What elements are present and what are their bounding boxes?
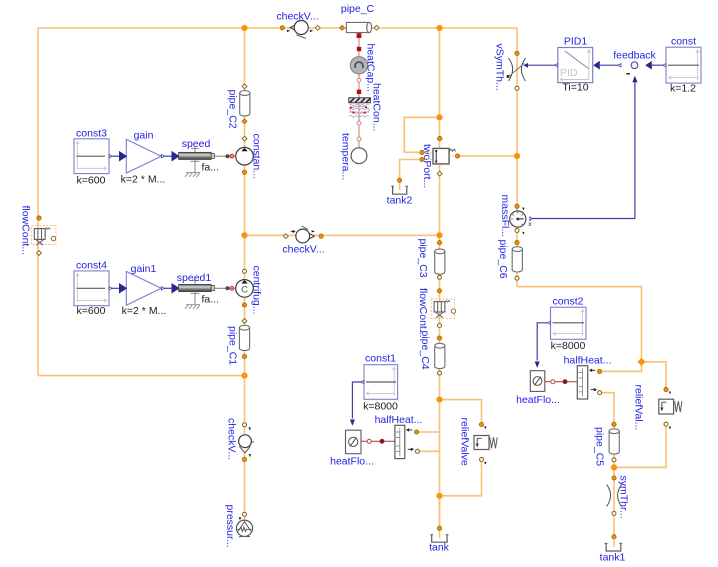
junction checkV row right <box>436 232 442 238</box>
svg-text:const2: const2 <box>553 296 584 308</box>
node below vSymTh <box>515 86 519 90</box>
node above tank2 <box>398 178 402 182</box>
node pink ring 3 <box>357 137 361 141</box>
heat wire heatFlo2 to halfHeat2 <box>545 381 578 383</box>
svg-text:heatFlo...: heatFlo... <box>516 394 560 406</box>
source heatFlo... (left) <box>330 430 374 467</box>
node below symThr <box>612 511 616 515</box>
heat capacitor heatCap... <box>350 44 376 92</box>
node right of pipe_C <box>374 25 379 30</box>
wire: feedback to PID1 <box>600 64 618 66</box>
wire: branch to reliefVal top <box>642 362 667 388</box>
node below reliefValve <box>480 457 484 461</box>
valve reliefVal... <box>633 385 683 431</box>
node pink ring below heatCap <box>357 78 361 82</box>
pipe_C4 <box>419 331 445 370</box>
node above pipe_C5 <box>612 422 616 426</box>
block const3 <box>74 128 112 187</box>
node heat dot <box>380 439 385 444</box>
wire: PID1 to vSymTh <box>528 64 554 66</box>
wire: const3 to gain <box>109 155 120 157</box>
check valve checkV... (vertical) <box>226 418 255 460</box>
convection heatCon... <box>349 83 383 131</box>
pipe_C3 <box>417 239 445 278</box>
svg-text:centrifug...: centrifug... <box>251 266 263 315</box>
junction branch left of mid column <box>436 114 442 120</box>
svg-text:reliefVal...: reliefVal... <box>633 385 645 431</box>
wire: const1 to heatFlo1 <box>352 382 361 419</box>
wire: branch junction to twoPort left top <box>404 117 439 152</box>
node above tank1 <box>612 535 616 539</box>
svg-text:PID: PID <box>560 67 578 79</box>
valve flowCont... (left) <box>20 206 56 256</box>
pipe_C6 <box>497 240 522 279</box>
junction reliefValve branch <box>436 397 442 403</box>
node below pump constan <box>242 170 246 174</box>
temperature sensor tempera... <box>340 133 367 180</box>
controller PID1 <box>554 36 600 94</box>
valve reliefValve <box>459 418 498 466</box>
pipe_C5 <box>594 427 620 466</box>
svg-text:tempera...: tempera... <box>340 133 352 180</box>
node below twoPort <box>437 171 442 176</box>
expansion vessel pressur... <box>224 505 253 548</box>
node above twoPort <box>438 137 442 141</box>
wire: left loop vertical <box>37 28 39 376</box>
svg-text:const4: const4 <box>76 260 107 272</box>
node right of top checkV <box>315 25 320 30</box>
junction top mid column <box>436 25 442 31</box>
svg-text:const: const <box>671 36 696 48</box>
junction center top <box>241 25 247 31</box>
actuator speed1 <box>172 272 219 309</box>
node below pipe_C1 <box>242 354 246 358</box>
comparator feedback <box>613 50 656 83</box>
valve twoPort... <box>421 144 456 188</box>
wire: halfHeat1 top stub <box>419 431 440 433</box>
svg-text:halfHeat...: halfHeat... <box>375 414 423 426</box>
heat port square 1 <box>357 33 362 38</box>
node below pump centrifug <box>242 303 246 307</box>
svg-text:pipe_C6: pipe_C6 <box>497 240 509 279</box>
junction reliefVal return <box>611 464 617 470</box>
svg-text:checkV...: checkV... <box>282 244 324 256</box>
actuator speed <box>172 138 219 177</box>
node halfHeat1 top right <box>415 430 419 434</box>
svg-text:gain: gain <box>134 130 154 142</box>
node below pipe_C2 <box>242 119 247 124</box>
node above flowCont2 <box>437 289 441 293</box>
node above pipe_C4 <box>437 336 441 340</box>
wire: tank stub <box>439 496 441 538</box>
junction diamond right loop <box>637 358 645 366</box>
node heat ring <box>367 439 371 443</box>
svg-text:fa...: fa... <box>202 294 220 306</box>
node right of middle checkV <box>319 234 323 238</box>
node above pressur <box>243 512 247 516</box>
svg-text:k=2 * M...: k=2 * M... <box>122 305 167 317</box>
wire: left loop bottom to center column <box>38 375 245 377</box>
node above pump centrifug <box>243 269 247 273</box>
tank2 <box>387 186 413 206</box>
node below reliefVal2 <box>664 422 668 426</box>
node below checkV vertical <box>242 457 246 461</box>
svg-text:constan...: constan... <box>251 134 263 180</box>
wire: reliefValve bottom return <box>440 461 482 496</box>
svg-text:symThr...: symThr... <box>618 476 630 519</box>
svg-text:k=8000: k=8000 <box>551 340 586 352</box>
svg-text:k=600: k=600 <box>77 175 106 187</box>
svg-text:heatCon...: heatCon... <box>371 83 383 131</box>
node left of middle checkV <box>283 234 288 239</box>
svg-text:checkV...: checkV... <box>226 418 238 460</box>
wire: gain1 to speed1 <box>163 287 172 289</box>
wire: const to feedback <box>652 64 663 66</box>
svg-text:gain1: gain1 <box>131 263 157 275</box>
wire: const4 to gain1 <box>109 287 120 289</box>
svg-text:pressur...: pressur... <box>224 505 236 548</box>
svg-text:k=1.2: k=1.2 <box>670 83 696 95</box>
source heatFlo... (right) <box>516 371 560 406</box>
svg-text:checkV...: checkV... <box>276 11 318 23</box>
svg-text:pipe_C2: pipe_C2 <box>227 90 239 129</box>
svg-text:fa...: fa... <box>202 162 220 174</box>
junction checkV row left <box>241 232 247 238</box>
node above symThr <box>612 476 616 480</box>
wire: top header from left loop to right column <box>38 27 517 29</box>
node below flowCont2 <box>438 324 442 328</box>
svg-text:C: C <box>241 285 248 296</box>
svg-text:massFl...: massFl... <box>499 195 511 238</box>
node above reliefValve <box>479 422 483 426</box>
node below massFl <box>515 229 519 233</box>
block const4 <box>74 260 112 317</box>
wire: branch junction to reliefValve top <box>440 400 482 423</box>
node left of pipe_C <box>340 25 345 30</box>
junction tank branch <box>436 493 442 499</box>
sensor massFl... <box>499 195 532 238</box>
node above tank <box>437 526 441 530</box>
junction bottom left loop <box>241 373 247 379</box>
wire: twoPort left bottom to tank2 <box>400 160 420 191</box>
valve vSymTh... <box>494 44 529 91</box>
block const1 <box>361 353 398 413</box>
svg-text:const3: const3 <box>76 128 107 140</box>
node below pipe_C6 <box>515 276 519 280</box>
junction twoPort right row <box>514 153 520 159</box>
wire: halfHeat2 bottom to pipe_C5 tank1 column <box>602 393 615 547</box>
node below pipe_C4 <box>438 371 442 375</box>
block gain <box>120 130 166 186</box>
node above massFl <box>515 204 519 208</box>
svg-text:pipe_C1: pipe_C1 <box>227 326 239 365</box>
svg-text:k=600: k=600 <box>77 305 106 317</box>
node above flowCont <box>37 216 41 220</box>
svg-text:tank2: tank2 <box>387 195 413 207</box>
node above reliefVal2 <box>664 388 668 392</box>
wire: main mid column vertical <box>439 28 441 529</box>
pipe_C1 <box>227 325 250 365</box>
node below pump2 to pipe_C1 <box>242 319 247 324</box>
shaft wire <box>214 154 236 158</box>
wire: twoPort right to right column <box>459 155 517 157</box>
arrow into heatFlo2 <box>535 362 540 368</box>
pump constan... <box>236 134 263 180</box>
throttle symThr... <box>607 476 630 519</box>
arrow into heatFlo1 <box>350 420 355 426</box>
node below pipe_C5 <box>612 458 616 462</box>
node above checkV vertical <box>243 423 247 427</box>
svg-text:heatFlo...: heatFlo... <box>330 456 374 468</box>
svg-text:PID1: PID1 <box>564 36 588 48</box>
svg-text:reliefValve: reliefValve <box>459 418 471 466</box>
svg-text:speed: speed <box>182 138 211 150</box>
svg-text:k=8000: k=8000 <box>363 401 398 413</box>
svg-text:feedback: feedback <box>613 50 656 62</box>
node twoPort left bottom <box>420 157 424 161</box>
svg-text:tank1: tank1 <box>600 552 626 564</box>
node halfHeat1 bottom right <box>415 449 419 453</box>
check valve checkV... (middle row) <box>282 226 324 256</box>
svg-text:pipe_C: pipe_C <box>341 3 375 15</box>
block const2 <box>547 296 586 353</box>
svg-text:x: x <box>528 221 532 228</box>
tank <box>429 535 450 554</box>
tank1 <box>600 543 626 563</box>
svg-text:k=2 * M...: k=2 * M... <box>121 174 166 186</box>
node below flowCont <box>37 251 42 256</box>
node below pipe_C3 <box>438 275 442 279</box>
svg-text:const1: const1 <box>365 353 396 365</box>
wire: pipe_C6 bottom to right loop down <box>517 287 642 372</box>
node heat dot 2 <box>563 379 568 384</box>
svg-text:pipe_C5: pipe_C5 <box>594 427 606 466</box>
wire: heat chain pipe_C to tempera <box>358 32 360 148</box>
svg-text:Ti=10: Ti=10 <box>562 82 588 94</box>
valve flowCont... (mid) <box>417 288 456 338</box>
pipe_C (horizontal) <box>341 3 375 33</box>
svg-text:halfHeat...: halfHeat... <box>564 355 612 367</box>
wire stub dotted twoPort <box>424 152 456 159</box>
wire: center column vertical <box>244 28 246 521</box>
heat wire heatFlo1 to halfHeat1 <box>361 440 395 442</box>
node above pipe_C6 <box>515 241 519 245</box>
heater halfHeat... (right) <box>564 355 612 400</box>
wire: middle checkV row <box>245 234 440 236</box>
arrow const to feedback <box>645 61 652 70</box>
wire: massFl to feedback <box>532 82 635 219</box>
node left of top checkV <box>280 26 284 30</box>
node above vSymTh <box>515 51 519 55</box>
node twoPort right <box>455 154 459 158</box>
node above pipe_C3 <box>437 241 441 245</box>
node halfHeat2 bottom right <box>598 391 602 395</box>
node halfHeat2 top right <box>598 369 602 373</box>
node heat ring 2 <box>551 380 555 384</box>
svg-text:pipe_C3: pipe_C3 <box>417 239 429 278</box>
tiny arrow marks massFl <box>522 208 524 211</box>
node pink ring 2 <box>357 121 361 125</box>
wire: const2 to heatFlo2 <box>537 323 549 361</box>
heat port square 3 <box>357 90 361 94</box>
wire: reliefVal bottom return <box>614 426 666 467</box>
check valve checkV... (top) <box>276 11 318 39</box>
pipe_C2 <box>227 90 250 129</box>
wire: gain to speed <box>163 155 172 157</box>
svg-text:flowCont...: flowCont... <box>20 206 32 256</box>
node twoPort left top <box>420 150 424 154</box>
pump centrifug... <box>236 266 263 315</box>
svg-text:speed1: speed1 <box>177 272 212 284</box>
block const <box>663 36 702 95</box>
svg-text:vSymTh...: vSymTh... <box>494 44 506 91</box>
heater halfHeat... (left) <box>375 414 423 459</box>
node above pump constan <box>242 136 247 141</box>
wire: right column vSymTh/massFl <box>516 28 518 287</box>
shaft wire <box>214 286 236 290</box>
node above pipe_C2 <box>242 84 247 89</box>
block gain1 <box>120 263 167 317</box>
svg-text:tank: tank <box>429 542 450 554</box>
svg-text:pipe_C4: pipe_C4 <box>419 331 431 370</box>
heat port square 2 <box>357 47 361 51</box>
wire: halfHeat1 bottom stub <box>420 450 440 452</box>
